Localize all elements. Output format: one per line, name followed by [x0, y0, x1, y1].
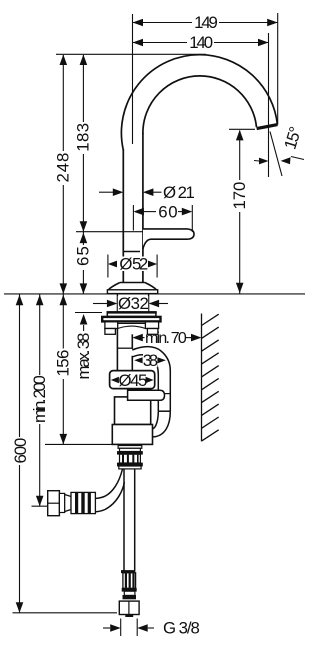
- spout inner arc: [143, 76, 257, 134]
- min70 dim line: [142, 337, 145, 339]
- Ø32: [107, 300, 118, 308]
- 60: [133, 208, 144, 216]
- escutcheon dome: [120, 282, 145, 284]
- 149 dim line: [133, 22, 193, 24]
- 156 dim: [62, 294, 64, 349]
- Ø45: [111, 377, 119, 383]
- svg-text:140: 140: [189, 33, 212, 52]
- 156: [60, 295, 68, 306]
- 15deg: [259, 158, 269, 165]
- 170 dim line: [239, 131, 241, 181]
- countertop baseline: [4, 293, 305, 295]
- 600 dim: [19, 294, 21, 437]
- 15deg leaders: [254, 160, 259, 163]
- min200: [36, 295, 44, 306]
- connector fitting below bracket: [117, 446, 142, 469]
- 140 / 15deg vertical reference: [268, 33, 270, 177]
- spout outlet face: [257, 125, 278, 129]
- 38: [134, 357, 142, 363]
- 140 dim line: [133, 42, 188, 44]
- hose bend into bracket: [153, 411, 171, 437]
- 65/183 extension: [76, 231, 143, 233]
- 248: [60, 55, 68, 66]
- max38: [80, 314, 88, 325]
- outlet extension: [229, 128, 255, 130]
- 183 dim line: [82, 55, 84, 122]
- min70: [132, 334, 143, 342]
- top extension line over spout: [56, 53, 206, 55]
- spout outer arc: [107, 55, 277, 294]
- flange plate (thick): [102, 317, 160, 322]
- riser pipe: [122, 149, 124, 283]
- handle: [143, 229, 194, 249]
- svg-text:Ø45: Ø45: [119, 371, 147, 390]
- 248 dim line: [62, 55, 64, 151]
- white backgrounds: [118, 257, 158, 368]
- 183: [80, 55, 88, 66]
- body: [115, 397, 151, 425]
- svg-text:65: 65: [74, 247, 93, 266]
- block: [169, 370, 171, 411]
- Ø21: [113, 188, 124, 196]
- svg-text:600: 600: [11, 438, 30, 463]
- Ø45 cylinder: [110, 371, 155, 389]
- Ø32 leader left: [93, 303, 107, 305]
- svg-text:Ø32: Ø32: [118, 294, 148, 313]
- 149 right extension: [277, 13, 279, 125]
- svg-text:60: 60: [158, 202, 177, 221]
- svg-text:248: 248: [54, 153, 73, 182]
- G3/8: [110, 624, 121, 632]
- 149: [133, 19, 144, 27]
- vertical hose: [96, 469, 135, 571]
- neck below counter + flange: [102, 294, 170, 437]
- svg-text:183: 183: [74, 123, 93, 151]
- branch hose to the left: [96, 469, 123, 498]
- flange top bar: [107, 312, 156, 317]
- feet: [105, 329, 116, 335]
- shank: [116, 329, 118, 371]
- min200 dim: [39, 294, 41, 375]
- 170: [236, 130, 244, 141]
- svg-text:38: 38: [143, 351, 158, 370]
- bottom fitting G3/8: [119, 571, 139, 617]
- svg-text:max. 38: max. 38: [74, 333, 93, 379]
- left fitting: [48, 491, 96, 516]
- svg-text:min. 70: min. 70: [145, 330, 187, 347]
- curved pipe to block: [132, 347, 170, 371]
- Ø21 leader: [99, 191, 113, 193]
- tabs: [105, 322, 118, 329]
- 65 dim line: [82, 232, 84, 245]
- stud bar: [128, 390, 165, 400]
- Ø52: [108, 261, 117, 268]
- 140: [133, 39, 144, 47]
- svg-text:156: 156: [54, 350, 73, 376]
- svg-text:Ø 21: Ø 21: [163, 183, 194, 202]
- svg-text:min. 200: min. 200: [30, 376, 49, 423]
- wall: [202, 314, 219, 442]
- G3/8: [120, 619, 122, 637]
- Ø52 extension lines: [107, 255, 109, 278]
- riser axis extension (149/140 left): [132, 14, 134, 144]
- bracket: [112, 425, 152, 445]
- svg-text:Ø 52: Ø 52: [119, 255, 147, 274]
- 600: [16, 295, 24, 306]
- svg-text:G 3/8: G 3/8: [163, 619, 199, 638]
- 65: [80, 233, 88, 244]
- 60 dim: [144, 211, 157, 213]
- svg-text:149: 149: [194, 13, 217, 32]
- svg-text:170: 170: [230, 182, 249, 209]
- 15 deg slanted line: [270, 132, 282, 177]
- max38 extension: [75, 312, 102, 314]
